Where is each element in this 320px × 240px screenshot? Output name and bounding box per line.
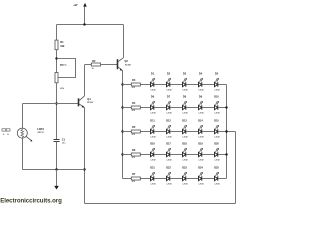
wire top rail	[57, 24, 124, 26]
junction dot right bus row 2	[225, 106, 227, 108]
LED D24	[199, 176, 202, 180]
resistor R4	[131, 106, 140, 109]
LED D20	[215, 152, 218, 156]
svg-text:LED: LED	[151, 183, 156, 185]
svg-text:LED: LED	[215, 159, 220, 161]
svg-text:LED: LED	[167, 112, 172, 114]
wire row 5 left	[123, 178, 151, 180]
LED D6	[151, 105, 154, 109]
LED D18	[183, 152, 186, 156]
svg-text:D19: D19	[198, 143, 203, 146]
wire row 1 left	[123, 84, 151, 86]
junction dot left bus row 3	[121, 130, 123, 132]
junction dot base-wire crossing	[55, 102, 57, 104]
svg-text:LED: LED	[183, 112, 188, 114]
svg-text:LED: LED	[183, 159, 188, 161]
junction dot left bus row 4	[121, 153, 123, 155]
svg-text:Q1: Q1	[87, 97, 91, 101]
svg-text:D11: D11	[150, 120, 155, 123]
svg-text:R5: R5	[132, 125, 136, 129]
wire row 3 left	[123, 131, 151, 133]
resistor R1	[55, 40, 58, 50]
junction dot emitter/ground rail	[83, 168, 85, 170]
svg-text:LED: LED	[151, 159, 156, 161]
wire outer return down	[235, 132, 237, 204]
LED D1	[151, 82, 154, 86]
transistor Q2	[117, 59, 119, 69]
svg-text:LED: LED	[167, 159, 172, 161]
svg-text:10k: 10k	[60, 45, 65, 48]
LDR package pads	[2, 129, 6, 131]
svg-text:Q2: Q2	[124, 59, 128, 63]
wire ground rail	[23, 169, 85, 171]
svg-text:BC547: BC547	[87, 101, 94, 104]
svg-text:LED: LED	[167, 89, 172, 91]
svg-text:D13: D13	[182, 120, 187, 123]
svg-text:LED: LED	[215, 183, 220, 185]
ground arrow	[56, 170, 58, 187]
junction dot row3 right	[225, 130, 227, 132]
LDR LDR1	[17, 128, 27, 138]
wire C1 to ground rail	[56, 142, 58, 170]
svg-text:D23: D23	[182, 167, 187, 170]
svg-text:D20: D20	[214, 143, 219, 146]
svg-text:D17: D17	[166, 143, 171, 146]
wire Q1 collector up	[84, 65, 86, 96]
svg-text:LED: LED	[199, 89, 204, 91]
svg-text:LED: LED	[183, 183, 188, 185]
svg-text:LED: LED	[215, 136, 220, 138]
svg-text:R3: R3	[132, 78, 136, 82]
svg-text:ORP12: ORP12	[37, 132, 44, 134]
svg-text:LED: LED	[151, 89, 156, 91]
svg-text:D25: D25	[214, 167, 219, 170]
LED D13	[183, 129, 186, 133]
junction dot right bus row 4	[225, 153, 227, 155]
resistor R3	[131, 83, 140, 86]
svg-text:R1: R1	[60, 40, 64, 44]
wire LDR top drop	[22, 104, 24, 129]
svg-text:LED: LED	[151, 112, 156, 114]
svg-text:BC547: BC547	[125, 64, 132, 67]
resistor R2	[91, 63, 100, 66]
svg-text:D15: D15	[214, 120, 219, 123]
svg-text:LED: LED	[167, 136, 172, 138]
wire row3 extension	[227, 131, 236, 133]
LED D15	[215, 129, 218, 133]
svg-text:LDR1: LDR1	[37, 127, 44, 131]
LED D11	[151, 129, 154, 133]
wire Q2 collector to rail	[123, 25, 125, 58]
svg-text:LED: LED	[199, 136, 204, 138]
LED D7	[167, 105, 170, 109]
svg-text:LED: LED	[167, 183, 172, 185]
svg-text:D14: D14	[198, 120, 203, 123]
junction dot left bus row 1	[121, 83, 123, 85]
junction dot right bus row 3	[225, 130, 227, 132]
LED D12	[167, 129, 170, 133]
svg-text:LED: LED	[151, 136, 156, 138]
svg-text:LED: LED	[199, 159, 204, 161]
svg-text:D21: D21	[150, 167, 155, 170]
svg-text:LED: LED	[199, 183, 204, 185]
wire pot to node	[56, 83, 58, 140]
svg-text:Electroniccircuits.org: Electroniccircuits.org	[0, 198, 62, 205]
svg-text:D16: D16	[150, 143, 155, 146]
svg-text:R6: R6	[132, 148, 136, 152]
junction dot box top-left	[55, 57, 57, 59]
transistor Q1	[78, 98, 80, 106]
wire bottom return	[85, 203, 236, 205]
LED D22	[167, 176, 170, 180]
wire R2 to Q2 base	[101, 64, 118, 66]
svg-text:D24: D24	[198, 167, 203, 170]
junction dot left bus row 2	[121, 106, 123, 108]
wire Q2 emitter bus	[122, 71, 124, 179]
svg-text:POT 1: POT 1	[60, 65, 67, 67]
potentiometer POT1 element	[55, 73, 58, 83]
svg-text:LED: LED	[183, 89, 188, 91]
svg-text:LED: LED	[199, 112, 204, 114]
svg-text:D18: D18	[182, 143, 187, 146]
capacitor C1	[54, 139, 60, 141]
svg-text:D22: D22	[166, 167, 171, 170]
svg-text:LED: LED	[183, 136, 188, 138]
wire R1 to box	[56, 50, 58, 73]
LED D16	[151, 152, 154, 156]
wire row 2 left	[123, 107, 151, 109]
wire LDR to Q1 base	[23, 103, 79, 105]
wire rail to R1	[56, 25, 58, 41]
svg-text:R2: R2	[92, 59, 96, 63]
LED D9	[199, 105, 202, 109]
LED D4	[199, 82, 202, 86]
pot box POT1	[57, 59, 76, 78]
LED D3	[183, 82, 186, 86]
junction dot ground stub	[55, 168, 57, 170]
resistor R6	[131, 153, 140, 156]
svg-text:R7: R7	[132, 172, 136, 176]
LED D10	[215, 105, 218, 109]
wire LED right bus	[226, 85, 228, 179]
resistor R7	[131, 177, 140, 180]
svg-text:R4: R4	[132, 101, 136, 105]
LED D19	[199, 152, 202, 156]
LED D8	[183, 105, 186, 109]
power arrow +9V	[83, 3, 87, 7]
svg-text:C1: C1	[62, 138, 66, 142]
wire collector to R2	[85, 64, 92, 66]
wire Q1 emitter down	[84, 108, 86, 204]
junction dot supply/rail	[83, 23, 85, 25]
LED D5	[215, 82, 218, 86]
LED D25	[215, 176, 218, 180]
LED D23	[183, 176, 186, 180]
svg-text:LED: LED	[215, 112, 220, 114]
wire row 4 left	[123, 154, 151, 156]
wire LDR bottom drop	[22, 138, 24, 169]
svg-text:D10: D10	[214, 96, 219, 99]
svg-text:LED: LED	[215, 89, 220, 91]
LED D17	[167, 152, 170, 156]
svg-text:+9V: +9V	[73, 4, 78, 7]
resistor R5	[131, 130, 140, 133]
LED D14	[199, 129, 202, 133]
svg-text:D12: D12	[166, 120, 171, 123]
LED D21	[151, 176, 154, 180]
LED D2	[167, 82, 170, 86]
